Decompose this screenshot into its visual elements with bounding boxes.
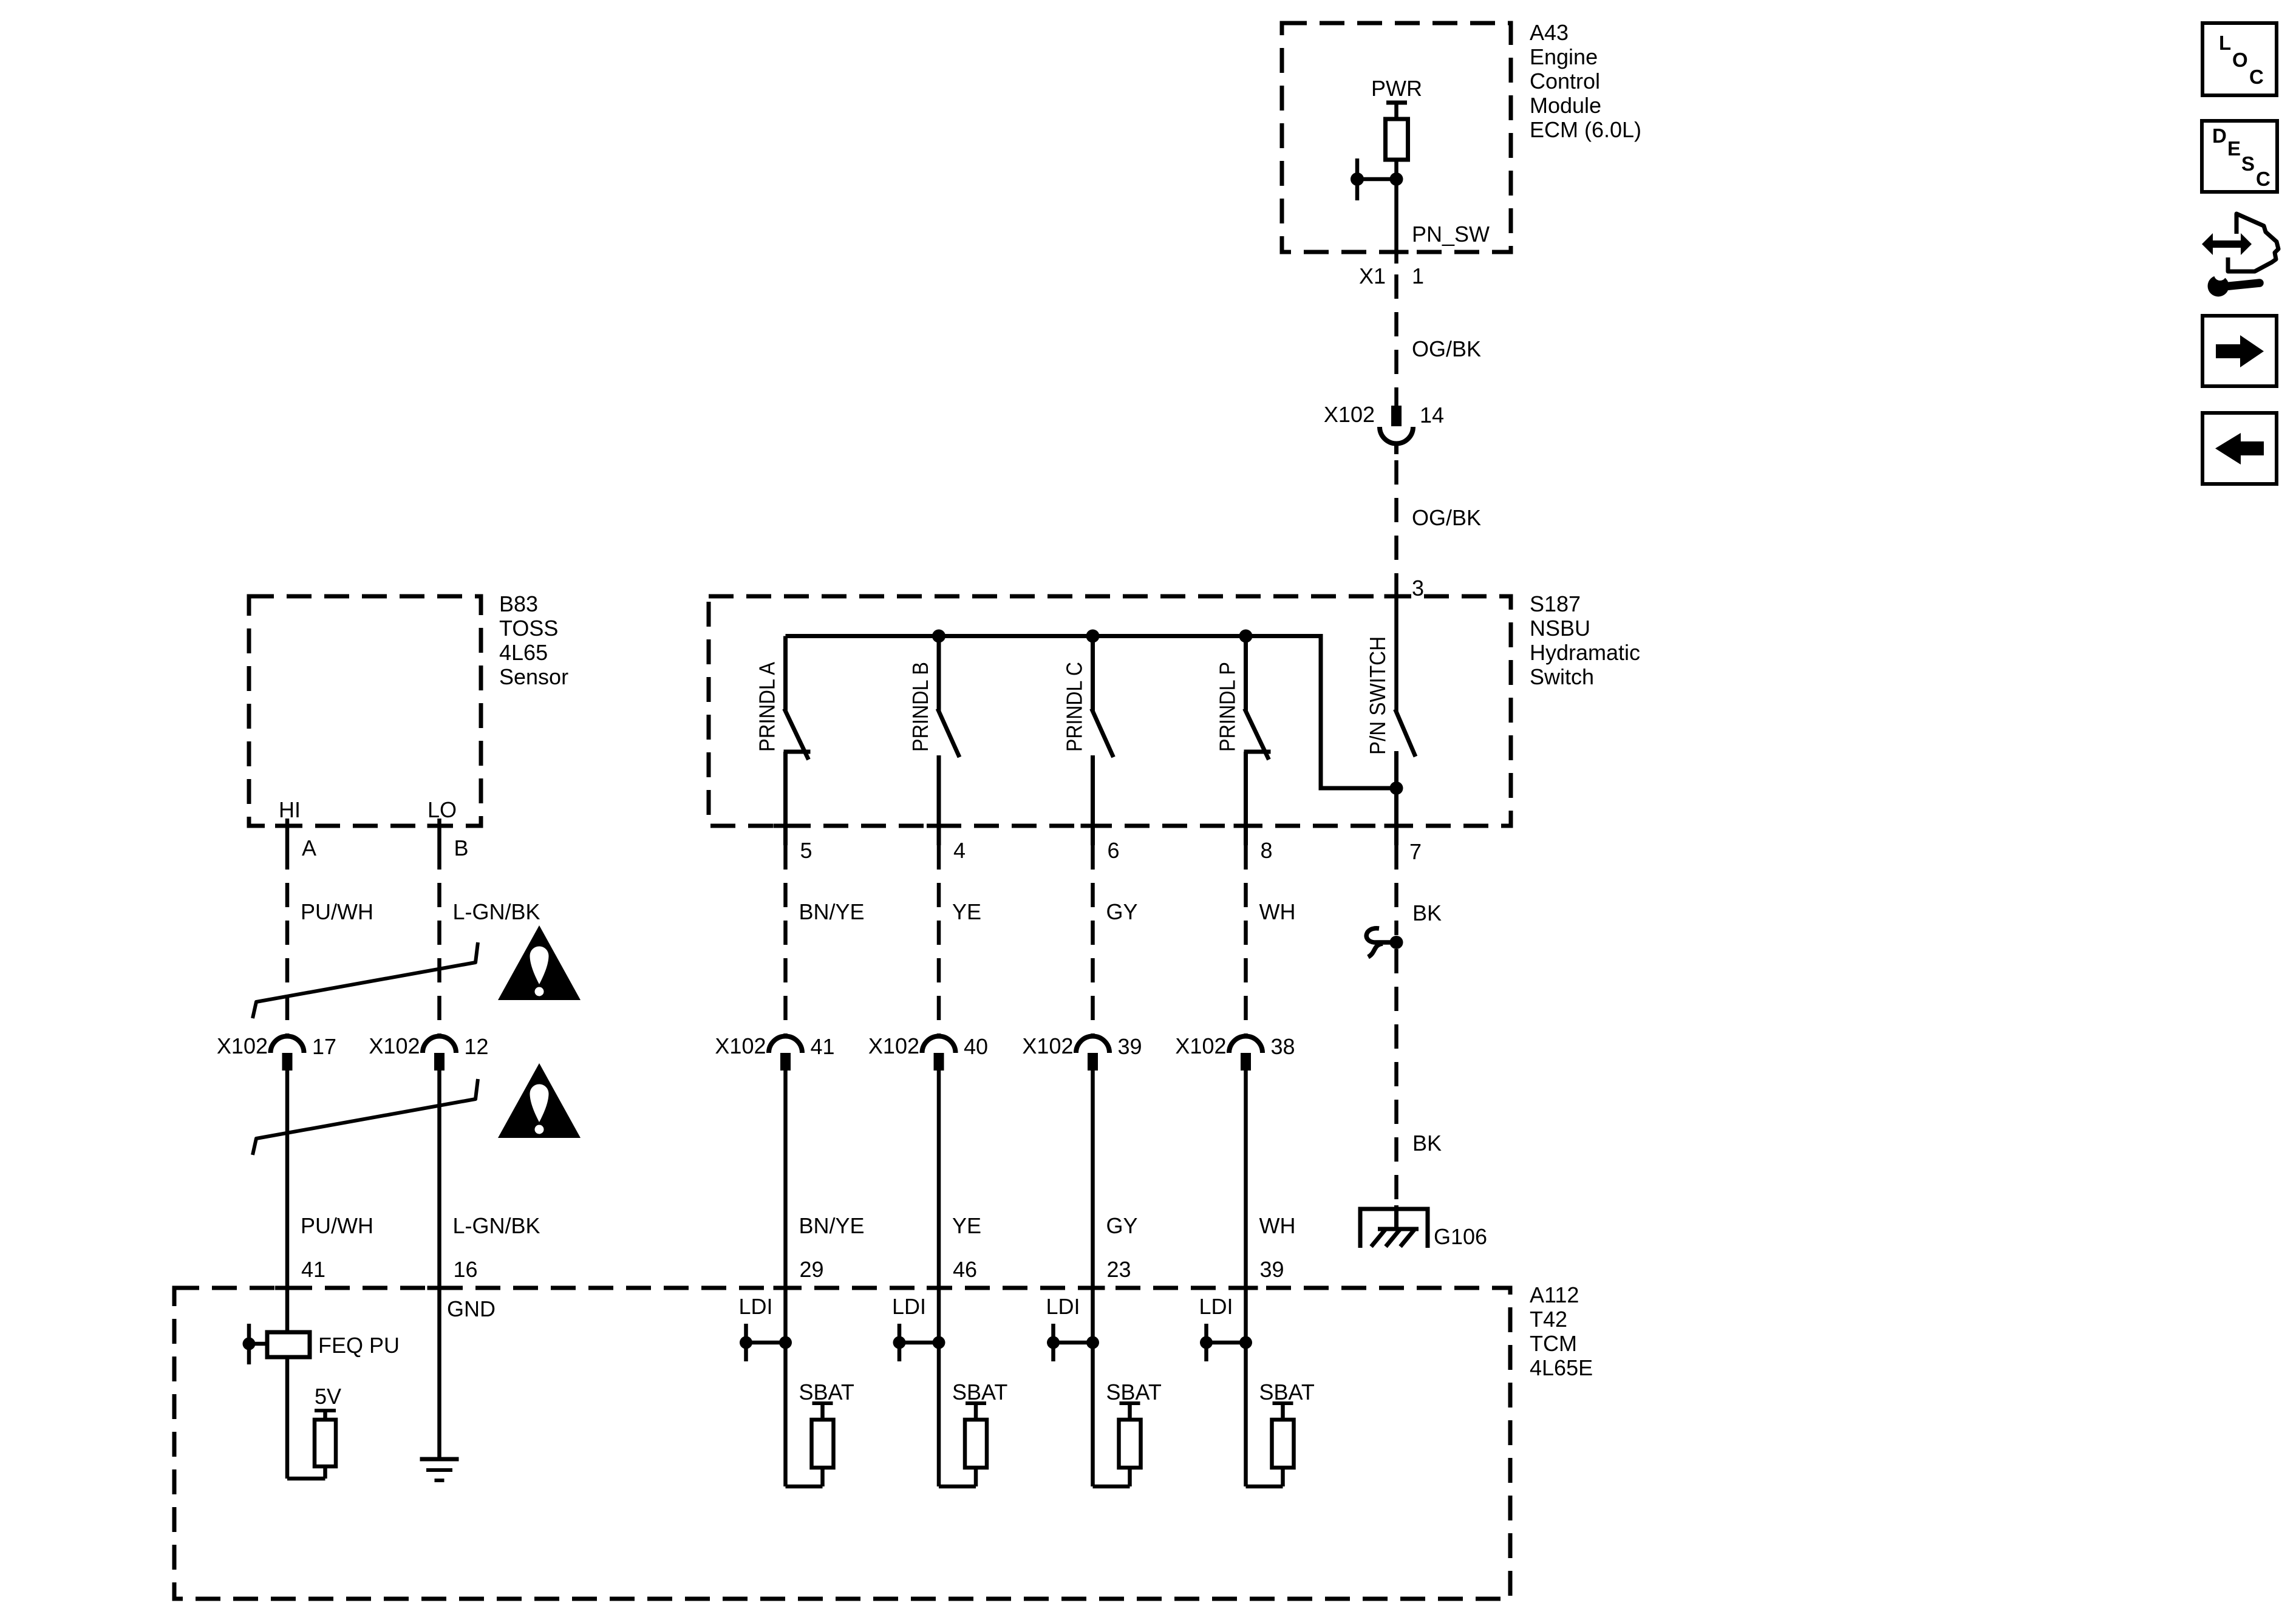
- resistor SBAT pull-up: [1119, 1420, 1141, 1468]
- inline connector X102 pin 38: [1229, 1036, 1262, 1053]
- svg-text:Hydramatic: Hydramatic: [1530, 640, 1640, 665]
- inline connector X102 pin 39: [1076, 1036, 1109, 1053]
- wire: [323, 1411, 327, 1420]
- switch P/N SWITCH: [1395, 709, 1416, 845]
- warning triangle: [498, 1063, 581, 1138]
- wire PU/WH dashed: [285, 845, 290, 1036]
- resistor SBAT pull-up: [1272, 1420, 1294, 1468]
- svg-text:PN_SW: PN_SW: [1412, 222, 1490, 247]
- svg-text:5: 5: [800, 838, 812, 863]
- junction dot: [1200, 1336, 1213, 1349]
- svg-text:X102: X102: [1324, 402, 1375, 427]
- splice clip: [1366, 928, 1391, 957]
- svg-text:39: 39: [1118, 1034, 1142, 1059]
- svg-text:Sensor: Sensor: [499, 664, 568, 689]
- DESC icon: [2202, 121, 2277, 192]
- svg-text:FEQ PU: FEQ PU: [318, 1333, 400, 1358]
- svg-text:23: 23: [1107, 1257, 1131, 1282]
- next page arrow icon: [2202, 316, 2277, 386]
- svg-text:PU/WH: PU/WH: [301, 899, 373, 924]
- svg-text:OG/BK: OG/BK: [1412, 336, 1481, 361]
- border tick at pin 8: [1234, 824, 1258, 828]
- wire: [285, 1357, 290, 1479]
- svg-text:A112: A112: [1530, 1282, 1579, 1307]
- wire: [783, 1071, 788, 1288]
- svg-text:29: 29: [800, 1257, 824, 1282]
- LDI input wire: [783, 1288, 788, 1486]
- wire: [1128, 1468, 1132, 1486]
- svg-text:S187: S187: [1530, 591, 1581, 616]
- svg-text:16: 16: [454, 1257, 478, 1282]
- wire TOSS LO inside TCM: [437, 1288, 441, 1459]
- S187 label: [1530, 591, 1640, 689]
- internal node stub: [744, 1324, 748, 1361]
- border tick at pin 3: [1385, 594, 1409, 599]
- svg-text:HI: HI: [279, 797, 301, 822]
- wire: [1281, 1403, 1285, 1420]
- svg-text:L-GN/BK: L-GN/BK: [453, 899, 540, 924]
- svg-text:WH: WH: [1259, 899, 1296, 924]
- svg-text:BN/YE: BN/YE: [799, 899, 865, 924]
- border tick at pin 16: [428, 1286, 452, 1290]
- svg-text:5V: 5V: [315, 1384, 341, 1409]
- switch PRINDL C: [1092, 636, 1114, 846]
- wire: [1207, 1341, 1246, 1345]
- wire: [323, 1466, 327, 1479]
- svg-text:PRINDL A: PRINDL A: [755, 662, 780, 752]
- SBAT supply bar: [1120, 1401, 1140, 1405]
- wire: [1394, 103, 1398, 119]
- wire YE dashed: [937, 845, 941, 1036]
- svg-text:BK: BK: [1412, 1131, 1442, 1156]
- svg-text:PU/WH: PU/WH: [301, 1213, 373, 1238]
- svg-text:PRINDL B: PRINDL B: [908, 662, 933, 752]
- wire L-GN/BK dashed: [437, 845, 441, 1036]
- svg-text:LDI: LDI: [892, 1294, 926, 1319]
- switch PRINDL P: [1244, 636, 1271, 846]
- internal node stub: [898, 1324, 902, 1361]
- ECM module box A43: [1282, 23, 1511, 252]
- svg-text:X102: X102: [217, 1033, 268, 1058]
- wire: [1246, 1485, 1283, 1489]
- svg-text:46: 46: [953, 1257, 977, 1282]
- svg-text:1: 1: [1412, 264, 1424, 288]
- LDI input wire: [1091, 1288, 1095, 1486]
- switch PRINDL A: [784, 636, 811, 846]
- svg-text:TCM: TCM: [1530, 1331, 1577, 1356]
- svg-text:PWR: PWR: [1371, 76, 1422, 101]
- border tick at pin 39: [1234, 1286, 1258, 1290]
- wire P/N input: [1394, 596, 1398, 712]
- svg-text:T42: T42: [1530, 1307, 1567, 1332]
- PWR supply bar: [1386, 101, 1407, 105]
- svg-text:3: 3: [1412, 576, 1424, 601]
- svg-text:L: L: [2219, 32, 2231, 54]
- internal node stub: [247, 1324, 251, 1364]
- resistor 5V pull-up: [315, 1420, 336, 1466]
- svg-text:D: D: [2212, 124, 2227, 147]
- junction dot: [933, 1336, 945, 1349]
- internal node stub: [1204, 1324, 1208, 1361]
- svg-text:E: E: [2227, 137, 2241, 160]
- junction dot: [779, 1336, 792, 1349]
- svg-text:P/N SWITCH: P/N SWITCH: [1365, 636, 1390, 755]
- svg-text:X102: X102: [868, 1033, 919, 1058]
- junction dot: [1351, 172, 1364, 186]
- svg-text:SBAT: SBAT: [799, 1380, 854, 1404]
- resistor SBAT pull-up: [965, 1420, 987, 1468]
- LDI input wire: [1244, 1288, 1248, 1486]
- junction dot: [740, 1336, 752, 1349]
- switch bus wire: [786, 636, 1397, 789]
- svg-text:X102: X102: [1022, 1033, 1073, 1058]
- inline connector X102 pin 12: [423, 1036, 456, 1053]
- svg-text:WH: WH: [1259, 1213, 1296, 1238]
- splice dot: [1390, 936, 1403, 949]
- border tick at pin 6: [1081, 824, 1105, 828]
- svg-text:6: 6: [1108, 838, 1120, 863]
- wire BN/YE dashed: [783, 845, 788, 1036]
- junction dot: [243, 1338, 256, 1350]
- border tick at pin 23: [1081, 1286, 1105, 1290]
- inline connector X102 pin 40: [922, 1036, 956, 1053]
- wire OG/BK dashed: [1394, 460, 1398, 597]
- svg-text:LDI: LDI: [1046, 1294, 1080, 1319]
- border tick at pin 7: [1385, 824, 1409, 828]
- border tick at pin 5: [774, 824, 798, 828]
- svg-text:Control: Control: [1530, 69, 1600, 94]
- wire: [1281, 1468, 1285, 1486]
- LDI input wire: [937, 1288, 941, 1486]
- border tick at ECM pin: [1385, 250, 1409, 254]
- svg-text:B83: B83: [499, 591, 538, 616]
- svg-text:YE: YE: [952, 1213, 981, 1238]
- wire: [1054, 1341, 1093, 1345]
- svg-text:7: 7: [1409, 839, 1422, 864]
- wire HI pin: [285, 819, 290, 845]
- svg-text:41: 41: [301, 1257, 325, 1282]
- twisted pair marker: [253, 942, 478, 1018]
- inline connector X102 pin 17: [271, 1036, 304, 1053]
- svg-text:38: 38: [1271, 1034, 1295, 1059]
- internal node stub: [1051, 1324, 1055, 1361]
- svg-text:4L65E: 4L65E: [1530, 1355, 1593, 1380]
- svg-text:YE: YE: [952, 899, 981, 924]
- svg-text:PRINDL P: PRINDL P: [1215, 662, 1240, 752]
- svg-text:GY: GY: [1106, 1213, 1138, 1238]
- border tick at pin 29: [774, 1286, 798, 1290]
- SBAT supply bar: [1273, 1401, 1293, 1405]
- svg-text:SBAT: SBAT: [1106, 1380, 1162, 1404]
- node junction: [1390, 172, 1403, 186]
- ground G106: [1360, 1205, 1428, 1248]
- wire: [974, 1403, 978, 1420]
- svg-text:C: C: [2249, 66, 2264, 88]
- svg-text:L-GN/BK: L-GN/BK: [453, 1213, 540, 1238]
- wire: [899, 1341, 939, 1345]
- wire GY dashed: [1091, 845, 1095, 1036]
- wire: [1091, 1071, 1095, 1288]
- wire BK dashed: [1394, 845, 1398, 935]
- svg-text:8: 8: [1261, 838, 1273, 863]
- svg-text:14: 14: [1420, 403, 1444, 427]
- wire: [287, 1477, 325, 1481]
- svg-text:4: 4: [953, 838, 966, 863]
- wire: [1093, 1485, 1130, 1489]
- wire LO pin: [437, 819, 441, 845]
- svg-text:Module: Module: [1530, 93, 1601, 118]
- wire: [249, 1342, 267, 1346]
- svg-text:LDI: LDI: [1199, 1294, 1233, 1319]
- border tick at pin B: [428, 824, 452, 828]
- svg-text:B: B: [454, 836, 469, 860]
- wire: [974, 1468, 978, 1486]
- bus junction dot: [1239, 630, 1253, 643]
- A112 label: [1530, 1282, 1593, 1380]
- LOC icon: [2202, 23, 2277, 95]
- svg-text:LDI: LDI: [738, 1294, 772, 1319]
- bus junction dot: [1086, 630, 1100, 643]
- border tick at pin 4: [927, 824, 951, 828]
- svg-text:BK: BK: [1412, 900, 1442, 925]
- wire: [937, 1071, 941, 1288]
- svg-text:Switch: Switch: [1530, 664, 1594, 689]
- wire OG/BK dashed: [1394, 274, 1398, 406]
- wire TOSS HI inside TCM: [285, 1288, 290, 1332]
- switch PRINDL B: [938, 636, 959, 846]
- bus junction dot: [1390, 781, 1403, 795]
- svg-text:A43: A43: [1530, 20, 1569, 45]
- svg-text:41: 41: [811, 1034, 835, 1059]
- wire: [1244, 1071, 1248, 1288]
- svg-text:Engine: Engine: [1530, 44, 1598, 69]
- wire: [1394, 160, 1398, 264]
- svg-text:X1: X1: [1359, 264, 1386, 288]
- inline connector X102 pin 14: [1391, 406, 1402, 426]
- junction dot: [1239, 1336, 1252, 1349]
- svg-text:GY: GY: [1106, 899, 1138, 924]
- svg-text:40: 40: [964, 1034, 988, 1059]
- TOSS sensor box B83: [249, 596, 481, 826]
- svg-text:4L65: 4L65: [499, 640, 548, 665]
- svg-text:OG/BK: OG/BK: [1412, 505, 1481, 530]
- svg-text:S: S: [2241, 152, 2255, 175]
- svg-text:SBAT: SBAT: [952, 1380, 1007, 1404]
- svg-text:G106: G106: [1434, 1224, 1487, 1249]
- junction dot: [1047, 1336, 1060, 1349]
- B83 label: [499, 591, 568, 689]
- wire: [939, 1485, 976, 1489]
- wire: [437, 1071, 441, 1288]
- TCM module box A112: [174, 1288, 1510, 1599]
- svg-text:NSBU: NSBU: [1530, 616, 1590, 641]
- bus junction dot: [932, 630, 945, 643]
- svg-text:C: C: [2256, 168, 2270, 190]
- svg-text:LO: LO: [428, 797, 457, 822]
- NSBU switch box S187: [709, 596, 1511, 826]
- FEQ PU box: [267, 1332, 310, 1357]
- border tick at pin 46: [927, 1286, 951, 1290]
- wire WH dashed: [1244, 845, 1248, 1036]
- svg-text:ECM (6.0L): ECM (6.0L): [1530, 117, 1641, 142]
- wire: [1357, 177, 1397, 182]
- wire: [1128, 1403, 1132, 1420]
- svg-text:X102: X102: [715, 1033, 766, 1058]
- A43 ECM label: [1530, 20, 1641, 142]
- svg-text:A: A: [302, 836, 316, 860]
- wire: [746, 1341, 786, 1345]
- svg-text:X102: X102: [1175, 1033, 1226, 1058]
- svg-text:GND: GND: [447, 1296, 496, 1321]
- SBAT supply bar: [966, 1401, 986, 1405]
- junction dot: [1086, 1336, 1099, 1349]
- svg-text:BN/YE: BN/YE: [799, 1213, 865, 1238]
- resistor PWR pull-up: [1386, 119, 1408, 160]
- border tick at pin A: [275, 824, 299, 828]
- twisted pair marker: [253, 1079, 478, 1155]
- wire: [786, 1485, 823, 1489]
- inline connector X102 pin 41: [769, 1036, 802, 1053]
- warning triangle: [498, 925, 581, 1000]
- junction dot: [893, 1336, 906, 1349]
- svg-text:PRINDL C: PRINDL C: [1062, 662, 1087, 752]
- wire BK dashed: [1394, 949, 1398, 1205]
- pin X1 1 label: [1359, 264, 1424, 288]
- previous page arrow icon: [2202, 413, 2277, 484]
- svg-text:TOSS: TOSS: [499, 616, 558, 641]
- SBAT supply bar: [812, 1401, 833, 1405]
- resistor SBAT pull-up: [812, 1420, 834, 1468]
- vehicle service icon: [2202, 214, 2278, 297]
- border tick at pin 41: [275, 1286, 299, 1290]
- wire: [820, 1403, 825, 1420]
- wire: [820, 1468, 825, 1486]
- 5V supply bar: [315, 1409, 336, 1412]
- svg-text:39: 39: [1260, 1257, 1284, 1282]
- svg-text:O: O: [2232, 49, 2248, 71]
- svg-text:SBAT: SBAT: [1259, 1380, 1315, 1404]
- svg-text:X102: X102: [369, 1033, 420, 1058]
- internal node stub: [1355, 158, 1360, 200]
- svg-text:17: 17: [312, 1034, 336, 1059]
- svg-text:12: 12: [465, 1034, 489, 1059]
- ground symbol: [420, 1459, 459, 1480]
- wire: [285, 1071, 290, 1288]
